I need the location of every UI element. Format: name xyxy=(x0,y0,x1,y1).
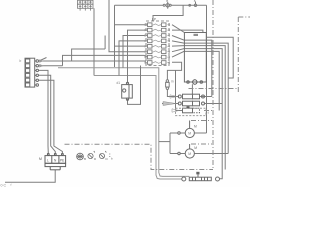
svg-text:d1: d1 xyxy=(117,81,121,85)
svg-text:M: M xyxy=(188,132,191,136)
svg-text:LP: LP xyxy=(152,17,157,21)
svg-text:0 C: 0 C xyxy=(1,184,7,188)
svg-text:m: m xyxy=(171,80,174,84)
svg-text:b: b xyxy=(20,59,22,63)
svg-text:M: M xyxy=(188,152,191,156)
svg-text:M: M xyxy=(39,157,42,161)
svg-text:PE: PE xyxy=(60,158,64,162)
svg-text:B: B xyxy=(166,0,168,3)
svg-text:M: M xyxy=(194,146,197,150)
svg-text:M: M xyxy=(194,124,197,128)
svg-text:L: L xyxy=(47,158,49,162)
svg-text:c d: c d xyxy=(206,111,210,115)
svg-text:B: B xyxy=(84,157,86,161)
